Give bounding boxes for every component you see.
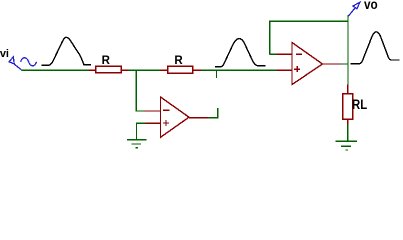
resistor RL body bbox=[343, 94, 353, 120]
resistor R2 lead left bbox=[160, 69, 168, 71]
wire: junction tick at node after R2 bbox=[216, 70, 218, 78]
waveform hump 2 (black, before op-amp U2) bbox=[215, 39, 266, 67]
node vo label bbox=[364, 0, 378, 11]
wire: U2 output to node vo bbox=[342, 63, 348, 65]
ground for RL bbox=[336, 141, 357, 150]
circuit schematic: precision full-wave stage with op-amps, R, R, RL bbox=[0, 0, 403, 152]
wire: feedback loop top of U2 bbox=[270, 21, 348, 54]
op-amp U1 plus input glyph bbox=[163, 120, 169, 126]
input arrow (blue) at node vi bbox=[9, 57, 22, 70]
wire: main horizontal input net bbox=[22, 69, 277, 71]
op-amp U1 non-inverting input lead (red) bbox=[145, 122, 160, 124]
wire: green part of U2 inverting input bbox=[270, 53, 277, 55]
op-amp U2 inverting input lead (red) bbox=[276, 53, 292, 55]
op-amp U2 triangle bbox=[292, 43, 323, 85]
wire: U1 output stub up bbox=[209, 108, 218, 118]
resistor R1 lead right bbox=[121, 69, 128, 71]
resistor R1 value label R bbox=[102, 56, 110, 68]
resistor R2 value label R bbox=[174, 56, 182, 68]
node vi label bbox=[0, 49, 9, 60]
op-amp U2 non-inverting input lead (red) bbox=[276, 69, 292, 71]
op-amp U1 minus input glyph bbox=[163, 109, 170, 111]
op-amp U1 output lead (red) bbox=[189, 117, 209, 119]
wire: vertical net at node vo bbox=[347, 15, 349, 85]
resistor RL value label bbox=[352, 98, 367, 112]
resistor R1 body bbox=[96, 66, 122, 72]
wire: junction drop to op-amp U1 inverting input bbox=[136, 70, 145, 111]
op-amp U1 inverting input lead (red) bbox=[145, 110, 161, 112]
op-amp U2 output lead (red) bbox=[323, 63, 342, 65]
waveform hump 3 (black, output) bbox=[351, 32, 400, 64]
resistor R2 body bbox=[168, 66, 193, 73]
resistor RL lead top (red) bbox=[347, 85, 349, 94]
waveform hump 1 (black, over input wire) bbox=[41, 37, 91, 65]
op-amp U2 plus input glyph bbox=[294, 66, 300, 72]
resistor R2 lead right bbox=[193, 69, 202, 71]
wire: U1 plus input to ground bbox=[137, 123, 146, 139]
wire: RL to ground bbox=[347, 125, 349, 142]
resistor RL lead bottom (red) bbox=[347, 119, 349, 125]
ground for U1 bbox=[127, 140, 147, 148]
resistor R1 lead left bbox=[88, 69, 95, 71]
op-amp U1 triangle bbox=[161, 97, 190, 137]
input sine waveform (blue) bbox=[21, 58, 37, 66]
op-amp U2 minus input glyph bbox=[296, 53, 302, 55]
output arrow (blue) at node vo bbox=[348, 2, 360, 16]
